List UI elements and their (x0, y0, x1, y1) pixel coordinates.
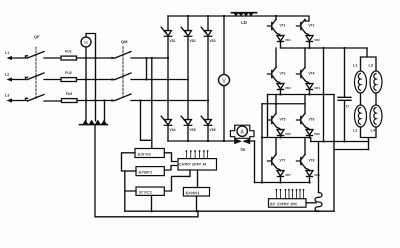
wire phase A to leg 1 (131, 57, 168, 59)
svg-text:VT6: VT6 (309, 118, 315, 122)
wire A1-A3 left bracket (122, 153, 137, 211)
svg-text:VD8: VD8 (314, 173, 320, 177)
svg-text:VT1: VT1 (280, 24, 286, 28)
wire phase row 3 link (262, 138, 311, 142)
thyristor VS2 (181, 27, 196, 43)
wire winding return (311, 141, 369, 143)
wire phase row 1 link (281, 47, 368, 49)
wire A1 right to A4 (164, 153, 176, 162)
svg-text:LD: LD (241, 20, 247, 25)
wire DC- down link (254, 141, 256, 183)
control block A5 (183, 188, 209, 197)
voltmeter PV (219, 75, 230, 86)
svg-text:L1: L1 (5, 51, 9, 55)
svg-text:VD1: VD1 (285, 38, 291, 42)
wire coil mid links (361, 93, 377, 105)
diode VD4 (306, 84, 320, 91)
node dot brake (317, 210, 319, 212)
svg-text:VT2: VT2 (309, 24, 315, 28)
diode VD5 (277, 130, 291, 137)
wire phase row 2 link a (268, 94, 335, 96)
wire fuses to switch QM (77, 58, 116, 101)
svg-text:VD7: VD7 (285, 173, 291, 177)
svg-text:VD3: VD3 (285, 86, 291, 90)
diode VD3 (277, 84, 291, 91)
svg-text:VT7: VT7 (280, 159, 286, 163)
thyristor VS5 (181, 116, 196, 132)
diode VD1 (277, 36, 291, 43)
wire phase row 4 link (255, 182, 311, 184)
thyristor VS1 (161, 27, 176, 43)
svg-text:L2: L2 (5, 72, 9, 76)
control block A3 (136, 187, 164, 195)
svg-text:L1: L1 (353, 64, 357, 68)
wire rectifier leg 1 (167, 16, 169, 141)
wire winding bottom (361, 127, 377, 150)
fuse FU3 (62, 92, 78, 103)
svg-text:VS3: VS3 (210, 39, 216, 43)
svg-text:VD4: VD4 (314, 86, 320, 90)
stator coil L4 (370, 105, 382, 133)
wire QF to fuses (44, 58, 62, 101)
wire phase B to leg 2 (131, 79, 188, 81)
wire A3 bottom (151, 195, 153, 211)
svg-text:VT5: VT5 (280, 118, 286, 122)
transistor VT4 (297, 67, 315, 81)
node dots row 4 (261, 181, 311, 183)
node dots row 1 link (308, 47, 345, 49)
terminal L2 (5, 72, 28, 81)
wire phase row 2 link b (262, 103, 305, 105)
svg-text:VT3: VT3 (280, 72, 286, 76)
svg-text:L3: L3 (5, 93, 9, 97)
brake coil LB (315, 193, 322, 212)
svg-text:FU3: FU3 (66, 92, 73, 96)
svg-text:QM: QM (121, 39, 128, 44)
svg-text:FU2: FU2 (65, 71, 72, 75)
wire DC- bottom rail (168, 140, 255, 142)
transistor VT2 (297, 19, 315, 33)
wire A2 left to bus (125, 170, 136, 172)
wire return right (333, 95, 335, 212)
wire DC+ top bus (168, 16, 309, 21)
wire return link (334, 149, 369, 151)
transistor VT5 (268, 113, 286, 127)
wire inverter left column (275, 16, 277, 155)
svg-text:VT4: VT4 (309, 72, 315, 76)
circuit breaker QF (28, 34, 45, 101)
diode VD6 (306, 130, 320, 137)
svg-text:БЗГН1: БЗГН1 (138, 152, 152, 156)
wire CT drops (86, 58, 105, 121)
node dots sync taps (139, 57, 153, 102)
diode VD8 (306, 171, 320, 178)
node dots bottom rail (187, 140, 225, 142)
svg-text:VS4: VS4 (170, 128, 176, 132)
wire sync tap 2 (141, 58, 152, 140)
wire TV to bottom bus (95, 125, 198, 217)
wire A6 right to brake (306, 202, 316, 204)
svg-text:VT8: VT8 (309, 159, 315, 163)
gate leads A4 (186, 150, 209, 159)
fuse FU2 (61, 71, 77, 82)
ammeter PA (81, 37, 91, 47)
transistor VT7 (268, 154, 286, 168)
node dots row 3 (261, 136, 311, 138)
svg-text:FU1: FU1 (65, 49, 72, 53)
svg-text:VS5: VS5 (190, 128, 196, 132)
svg-text:QF: QF (34, 34, 40, 39)
wire winding feeder (361, 48, 377, 71)
wire rectifier leg 3 (207, 16, 209, 141)
wire return bus 3 (267, 95, 269, 138)
node arrows QM (112, 57, 117, 102)
wire phase C to leg 3 (131, 100, 208, 102)
terminal L1 (5, 51, 28, 60)
diode VD2 (306, 36, 320, 43)
svg-text:L2: L2 (353, 129, 357, 133)
svg-text:L4: L4 (371, 129, 376, 133)
node dots top bus (187, 15, 277, 17)
control block A6 (269, 199, 307, 208)
current sensor TA (230, 125, 254, 152)
wire voltmeter branch (223, 16, 225, 141)
node dots bottom bus (150, 210, 199, 212)
svg-text:C: C (346, 104, 349, 109)
gate leads A6 (276, 189, 305, 199)
control block A2 (136, 167, 164, 176)
svg-text:W: W (84, 40, 89, 45)
svg-text:VS6: VS6 (210, 128, 216, 132)
fuse FU1 (61, 49, 77, 60)
transistor VT8 (297, 154, 315, 168)
wire A5 bottom (196, 196, 198, 211)
wire A4 to A5 (197, 170, 199, 188)
node dots row 2 (275, 93, 311, 104)
reactor LD (232, 13, 257, 25)
thyristor VS6 (201, 116, 216, 132)
svg-text:ТВ: ТВ (240, 147, 245, 152)
wire inverter jogs (276, 33, 310, 183)
svg-text:СИФУ ВПР М: СИФУ ВПР М (179, 162, 207, 166)
svg-text:VS2: VS2 (190, 39, 196, 43)
wire return bus 2 (261, 104, 263, 183)
capacitor C (338, 48, 351, 142)
node dots phase taps (85, 57, 106, 102)
svg-text:БУВР1: БУВР1 (139, 170, 153, 174)
stator coil L1 (353, 64, 367, 94)
node dots winding return (322, 140, 345, 142)
wire DC link to brake coil (318, 142, 320, 193)
stator coil L3 (369, 64, 383, 94)
wire ammeter loop (86, 34, 96, 59)
svg-text:БУ СИФУ ИН: БУ СИФУ ИН (270, 202, 297, 206)
contactor QM (115, 39, 131, 101)
thyristor VS3 (201, 27, 216, 43)
svg-text:ЗГУС1: ЗГУС1 (139, 190, 153, 194)
control block A1 (135, 149, 164, 158)
svg-text:БУИН1: БУИН1 (186, 191, 200, 195)
control block A4 (178, 159, 217, 170)
svg-text:VD5: VD5 (285, 132, 291, 136)
transistor VT6 (297, 113, 315, 127)
svg-text:VD2: VD2 (314, 38, 320, 42)
wire inverter right column (304, 20, 306, 155)
transistor VT1 (268, 19, 286, 33)
stator coil L2 (353, 105, 367, 133)
transistor VT3 (268, 67, 286, 81)
svg-text:VS1: VS1 (170, 39, 176, 43)
wire bus to winding top (323, 48, 325, 142)
thyristor VS4 (161, 116, 176, 132)
wire rectifier leg 2 (187, 16, 189, 141)
wire A2 right to A4 (164, 166, 176, 171)
diode VD7 (277, 171, 291, 178)
svg-text:L3: L3 (369, 64, 373, 68)
transformer winding TV (80, 124, 108, 126)
wire sync tap 1 (151, 58, 153, 149)
wire A3 right to A4 (164, 170, 190, 191)
terminal L3 (5, 93, 28, 102)
svg-text:VD6: VD6 (314, 132, 320, 136)
wire bottom bus (125, 210, 334, 212)
